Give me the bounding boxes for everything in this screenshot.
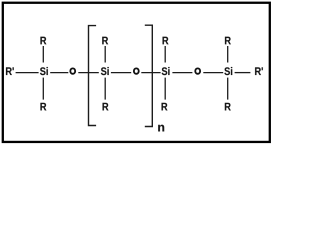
atom O2 (134, 68, 139, 73)
subscript n (158, 125, 164, 132)
wire Si1 down (42, 78, 44, 100)
label R'1 (6, 67, 12, 75)
wire Si2 to O2 (111, 72, 131, 74)
wire Si1 up (42, 46, 44, 63)
bracket open (89, 26, 97, 126)
border frame (3, 3, 270, 142)
atom Si4 (224, 67, 230, 75)
label R top4 (225, 37, 231, 45)
atom Si3 (162, 67, 168, 75)
atom Si2 (101, 67, 107, 75)
wire Si3 down (164, 78, 166, 100)
wire O3 to Si4 (203, 72, 223, 74)
atom Si1 (40, 67, 46, 75)
label R top2 (102, 37, 108, 45)
wire R'1 to Si1 (16, 72, 39, 74)
atom O1 (70, 68, 75, 73)
wire Si4 to R'2 (235, 72, 251, 74)
wire Si2 down (104, 78, 106, 100)
wire Si1 to O1 (50, 72, 68, 74)
label R bottom3 (162, 103, 168, 111)
wire Si2 up (104, 46, 106, 63)
label R bottom2 (103, 103, 109, 111)
wire Si3 to O3 (172, 72, 192, 74)
bracket close (145, 25, 153, 126)
wire Si4 up (227, 46, 229, 63)
atom O3 (195, 68, 200, 73)
label R bottom4 (225, 103, 231, 111)
wire O1 to Si2 (78, 72, 99, 74)
label R top1 (40, 37, 46, 45)
label R bottom1 (40, 103, 46, 111)
wire Si3 up (164, 46, 166, 63)
label R'2 (255, 67, 261, 75)
wire O2 to Si3 (141, 72, 160, 74)
wire Si4 down (227, 78, 229, 100)
label R top3 (163, 37, 169, 45)
